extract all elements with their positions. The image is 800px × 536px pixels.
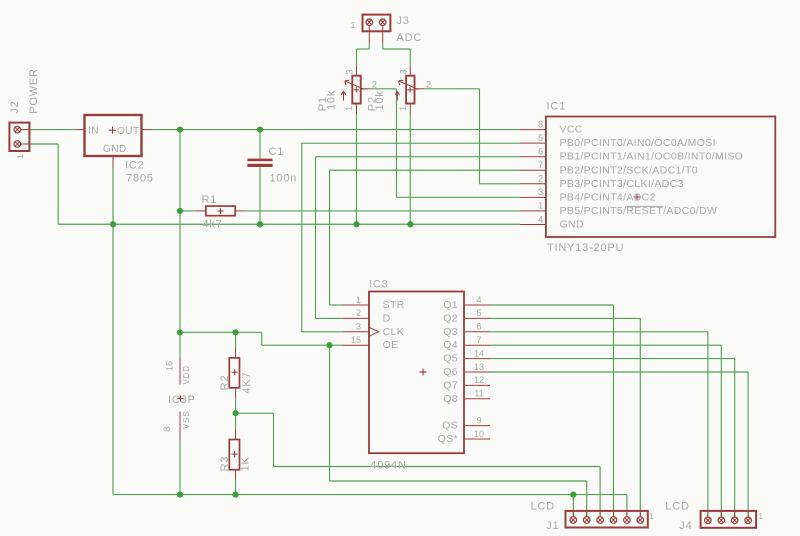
svg-text:PB5/PCINT5/RESET/ADC0/DW: PB5/PCINT5/RESET/ADC0/DW bbox=[560, 205, 718, 217]
svg-text:11: 11 bbox=[474, 389, 483, 399]
svg-text:13: 13 bbox=[474, 362, 484, 372]
svg-text:POWER: POWER bbox=[28, 68, 40, 114]
svg-text:R2: R2 bbox=[219, 375, 231, 391]
svg-text:GND: GND bbox=[103, 144, 127, 155]
svg-text:VCC: VCC bbox=[560, 124, 583, 136]
svg-text:QS*: QS* bbox=[438, 433, 458, 445]
svg-text:Q4: Q4 bbox=[443, 339, 458, 351]
svg-text:100n: 100n bbox=[270, 172, 298, 184]
svg-text:6: 6 bbox=[538, 147, 543, 157]
svg-text:PB1/PCINT1/AIN1/OC0B/INT0/MISO: PB1/PCINT1/AIN1/OC0B/INT0/MISO bbox=[560, 151, 744, 163]
svg-text:GND: GND bbox=[560, 218, 584, 230]
svg-text:C1: C1 bbox=[269, 146, 285, 158]
svg-text:1: 1 bbox=[356, 295, 361, 305]
svg-text:IC1: IC1 bbox=[547, 100, 567, 112]
svg-text:15: 15 bbox=[351, 335, 361, 345]
svg-text:ADC: ADC bbox=[397, 32, 423, 44]
svg-text:TINY13-20PU: TINY13-20PU bbox=[547, 242, 624, 254]
svg-text:1K: 1K bbox=[240, 456, 252, 471]
svg-text:Q8: Q8 bbox=[443, 393, 458, 405]
svg-text:3: 3 bbox=[356, 322, 361, 332]
svg-text:7: 7 bbox=[538, 160, 543, 170]
svg-text:1: 1 bbox=[759, 512, 764, 521]
svg-text:IC2: IC2 bbox=[125, 160, 145, 172]
svg-text:12: 12 bbox=[474, 375, 484, 385]
svg-text:PB3/PCINT3/CLKI/ADC3: PB3/PCINT3/CLKI/ADC3 bbox=[560, 178, 684, 190]
svg-text:14: 14 bbox=[474, 348, 484, 358]
svg-text:2: 2 bbox=[356, 308, 361, 318]
svg-text:1: 1 bbox=[351, 20, 356, 30]
svg-text:9: 9 bbox=[476, 415, 481, 425]
svg-text:5: 5 bbox=[538, 133, 543, 143]
svg-text:R1: R1 bbox=[202, 194, 218, 206]
svg-text:8: 8 bbox=[162, 427, 172, 432]
svg-text:IN: IN bbox=[88, 126, 99, 137]
svg-text:Q1: Q1 bbox=[443, 299, 458, 311]
svg-text:CLK: CLK bbox=[383, 326, 404, 338]
svg-text:1: 1 bbox=[15, 153, 25, 159]
svg-text:1: 1 bbox=[538, 201, 543, 211]
svg-text:Q3: Q3 bbox=[443, 326, 458, 338]
svg-text:7: 7 bbox=[476, 335, 481, 345]
svg-text:J4: J4 bbox=[679, 520, 692, 532]
svg-text:Q7: Q7 bbox=[443, 379, 458, 391]
svg-text:1: 1 bbox=[649, 512, 654, 521]
svg-text:D: D bbox=[383, 312, 391, 324]
svg-text:Q5: Q5 bbox=[443, 353, 458, 365]
svg-text:4k7: 4k7 bbox=[203, 219, 223, 231]
svg-text:LCD: LCD bbox=[665, 501, 689, 513]
svg-text:2: 2 bbox=[426, 80, 431, 90]
svg-text:J3: J3 bbox=[397, 15, 410, 27]
svg-text:1: 1 bbox=[398, 106, 408, 111]
svg-text:1: 1 bbox=[344, 106, 354, 111]
svg-text:4094N: 4094N bbox=[370, 459, 406, 471]
svg-text:10: 10 bbox=[474, 429, 484, 439]
svg-text:OUT: OUT bbox=[117, 126, 140, 137]
svg-text:PB2/PCINT2/SCK/ADC1/T0: PB2/PCINT2/SCK/ADC1/T0 bbox=[560, 164, 698, 176]
svg-text:Q6: Q6 bbox=[443, 366, 458, 378]
svg-text:10k: 10k bbox=[325, 90, 337, 110]
svg-text:6: 6 bbox=[476, 322, 481, 332]
svg-text:2: 2 bbox=[372, 80, 377, 90]
svg-text:PB4/PCINT4/ADC2: PB4/PCINT4/ADC2 bbox=[560, 191, 656, 203]
svg-text:J1: J1 bbox=[546, 520, 559, 532]
svg-text:16: 16 bbox=[164, 361, 174, 371]
svg-text:IC3: IC3 bbox=[369, 279, 389, 291]
svg-text:4: 4 bbox=[476, 295, 481, 305]
svg-text:7805: 7805 bbox=[126, 172, 154, 184]
svg-text:QS: QS bbox=[442, 420, 458, 432]
svg-text:VSS: VSS bbox=[182, 411, 191, 429]
svg-text:5: 5 bbox=[476, 308, 481, 318]
svg-text:R3: R3 bbox=[219, 456, 231, 472]
svg-text:10k: 10k bbox=[374, 90, 386, 110]
svg-text:STR: STR bbox=[383, 299, 405, 311]
svg-text:LCD: LCD bbox=[531, 501, 555, 513]
svg-text:8: 8 bbox=[538, 119, 543, 129]
svg-text:3: 3 bbox=[345, 69, 355, 74]
svg-text:4K7: 4K7 bbox=[241, 372, 253, 394]
svg-text:2: 2 bbox=[538, 174, 543, 184]
svg-text:OE: OE bbox=[383, 339, 399, 351]
svg-text:3: 3 bbox=[538, 187, 543, 197]
svg-text:4: 4 bbox=[538, 214, 543, 224]
svg-text:Q2: Q2 bbox=[443, 312, 458, 324]
svg-text:IC3P: IC3P bbox=[168, 394, 196, 406]
svg-text:3: 3 bbox=[398, 69, 408, 74]
svg-text:PB0/PCINT0/AIN0/OC0A/MOSI: PB0/PCINT0/AIN0/OC0A/MOSI bbox=[560, 137, 716, 149]
svg-text:VDD: VDD bbox=[182, 365, 191, 384]
svg-text:J2: J2 bbox=[9, 101, 21, 114]
